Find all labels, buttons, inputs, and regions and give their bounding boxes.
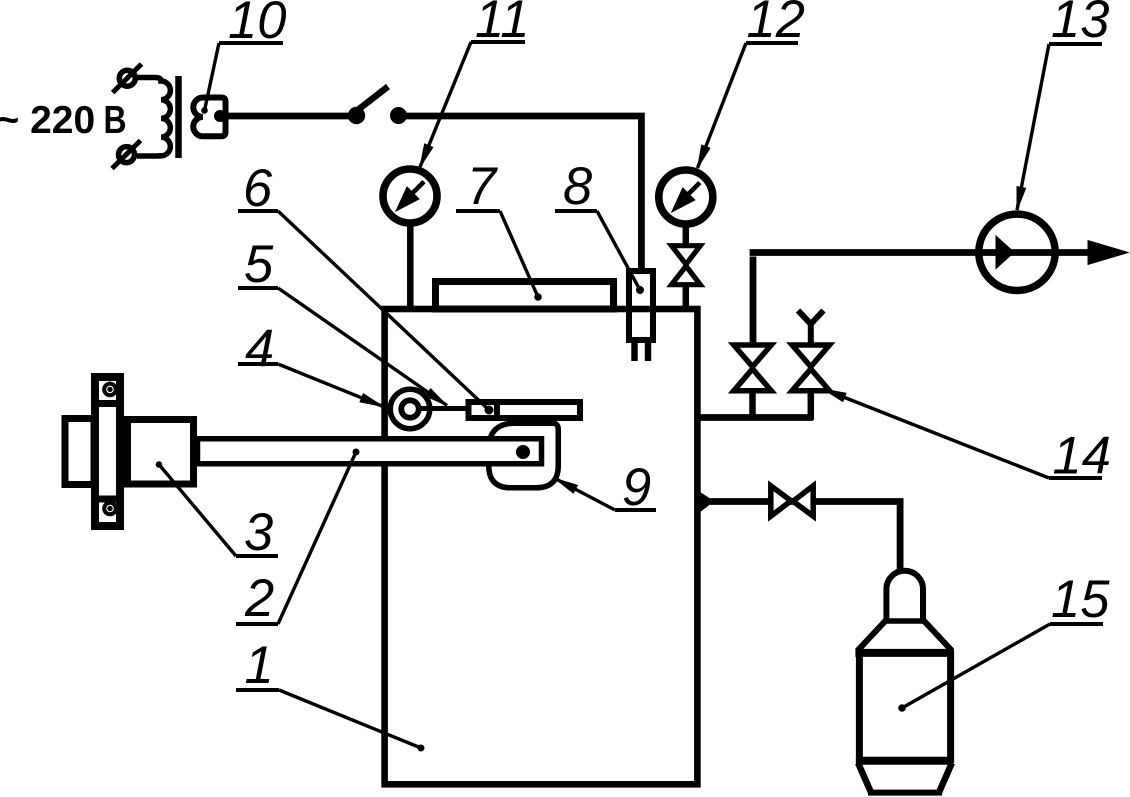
svg-text:12: 12 [747, 0, 805, 49]
svg-text:8: 8 [563, 157, 592, 216]
svg-text:6: 6 [243, 159, 273, 218]
svg-text:3: 3 [244, 503, 273, 562]
svg-text:7: 7 [467, 157, 498, 216]
svg-text:11: 11 [475, 0, 530, 49]
svg-text:10: 10 [228, 0, 286, 50]
svg-text:2: 2 [244, 569, 274, 628]
svg-text:13: 13 [1051, 0, 1109, 49]
svg-text:5: 5 [244, 235, 274, 294]
svg-text:15: 15 [1051, 570, 1110, 629]
svg-text:1: 1 [245, 636, 274, 695]
svg-text:14: 14 [1053, 427, 1111, 486]
svg-text:В: В [104, 99, 127, 142]
svg-text:4: 4 [245, 320, 274, 379]
svg-text:9: 9 [622, 458, 651, 517]
svg-text:~ 220: ~ 220 [0, 99, 95, 142]
